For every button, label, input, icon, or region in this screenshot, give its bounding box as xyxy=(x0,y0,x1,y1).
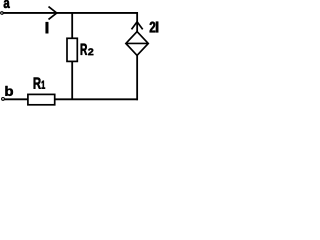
label 2I xyxy=(150,22,158,33)
source arrow (upward) xyxy=(132,22,143,30)
terminal b xyxy=(2,98,5,101)
wire R2 branch top xyxy=(71,13,73,39)
label R1 xyxy=(34,77,45,88)
dependent source mid line xyxy=(126,42,148,44)
wire right branch lower lead (source bottom to corner) xyxy=(136,55,138,100)
current arrow I on top rail xyxy=(49,7,57,20)
terminal a xyxy=(1,12,4,15)
wire R2 branch bottom xyxy=(71,61,73,99)
label R2 xyxy=(81,44,94,55)
node b label xyxy=(5,86,13,96)
wire bottom rail (right corner to R1 right end) xyxy=(55,98,138,100)
wire top rail from node a to top-right corner xyxy=(3,12,138,14)
wire bottom rail left (node b to R1 left end) xyxy=(5,98,28,100)
label I xyxy=(46,22,48,33)
wire right branch upper lead (corner down to source top) xyxy=(136,12,138,32)
resistor R2 xyxy=(67,38,77,61)
node a label xyxy=(4,0,10,8)
resistor R1 xyxy=(28,94,55,104)
dependent current source diamond xyxy=(126,32,148,56)
